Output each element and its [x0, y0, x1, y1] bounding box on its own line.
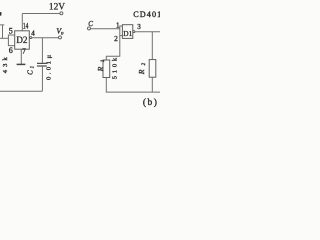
node tie pins 1 and 2: [120, 26, 123, 36]
svg-text:D1: D1: [123, 29, 132, 38]
svg-text:0.01μ: 0.01μ: [46, 55, 53, 80]
svg-text:5: 5: [9, 26, 13, 35]
svg-text:14: 14: [23, 20, 29, 30]
svg-text:43k: 43k: [2, 56, 9, 73]
node tie pins 5 and 6: [8, 35, 14, 46]
svg-text:CD4011: CD4011: [133, 10, 160, 19]
output bubble D2 pin 4: [30, 37, 32, 39]
resistor R1: [103, 60, 110, 78]
pin 7 stub: [20, 49, 22, 64]
svg-text:R1: R1: [96, 55, 106, 72]
wire bottom rail circuit a: [0, 90, 42, 92]
output bubble D1 pin 3: [133, 31, 135, 33]
capacitor C1: [37, 63, 47, 66]
svg-text:7: 7: [22, 48, 26, 56]
edge fragment glyph: [0, 12, 1, 16]
svg-text:(b): (b): [143, 97, 159, 108]
svg-text:3: 3: [137, 23, 141, 31]
wire pin 14 to supply: [21, 14, 23, 31]
resistor R2: [149, 60, 156, 78]
svg-text:D2: D2: [16, 35, 28, 45]
terminal Vo: [59, 36, 62, 39]
wire from tie to R1: [106, 36, 120, 60]
wire input to D2: [0, 37, 8, 39]
wire R2 to rail: [151, 77, 153, 92]
svg-text:C1: C1: [26, 64, 35, 75]
terminal C: [88, 27, 91, 30]
wire C1 to bottom rail: [41, 66, 43, 91]
wire output to C1: [41, 38, 43, 63]
wire fragment at left edge: [0, 25, 4, 38]
op-amp gate D2: [15, 31, 30, 49]
ground: [17, 63, 26, 65]
wire bottom rail circuit b: [106, 91, 160, 93]
wire C to D1 input: [91, 28, 120, 30]
terminal 12V: [60, 12, 63, 15]
wire junction to R2: [151, 32, 153, 60]
svg-text:R2: R2: [137, 59, 147, 75]
svg-text:6: 6: [9, 46, 13, 55]
svg-text:2: 2: [114, 34, 118, 43]
svg-text:4: 4: [31, 30, 35, 38]
op-amp gate D1: [122, 25, 132, 39]
wire D2 output: [32, 37, 59, 39]
wire 12V supply rail: [22, 13, 59, 15]
svg-text:1: 1: [116, 22, 120, 30]
svg-text:12V: 12V: [49, 2, 65, 12]
wire R1 to rail: [105, 78, 107, 93]
wire D1 output: [135, 31, 160, 33]
svg-text:Vo: Vo: [56, 26, 64, 36]
svg-text:510k: 510k: [111, 57, 118, 79]
